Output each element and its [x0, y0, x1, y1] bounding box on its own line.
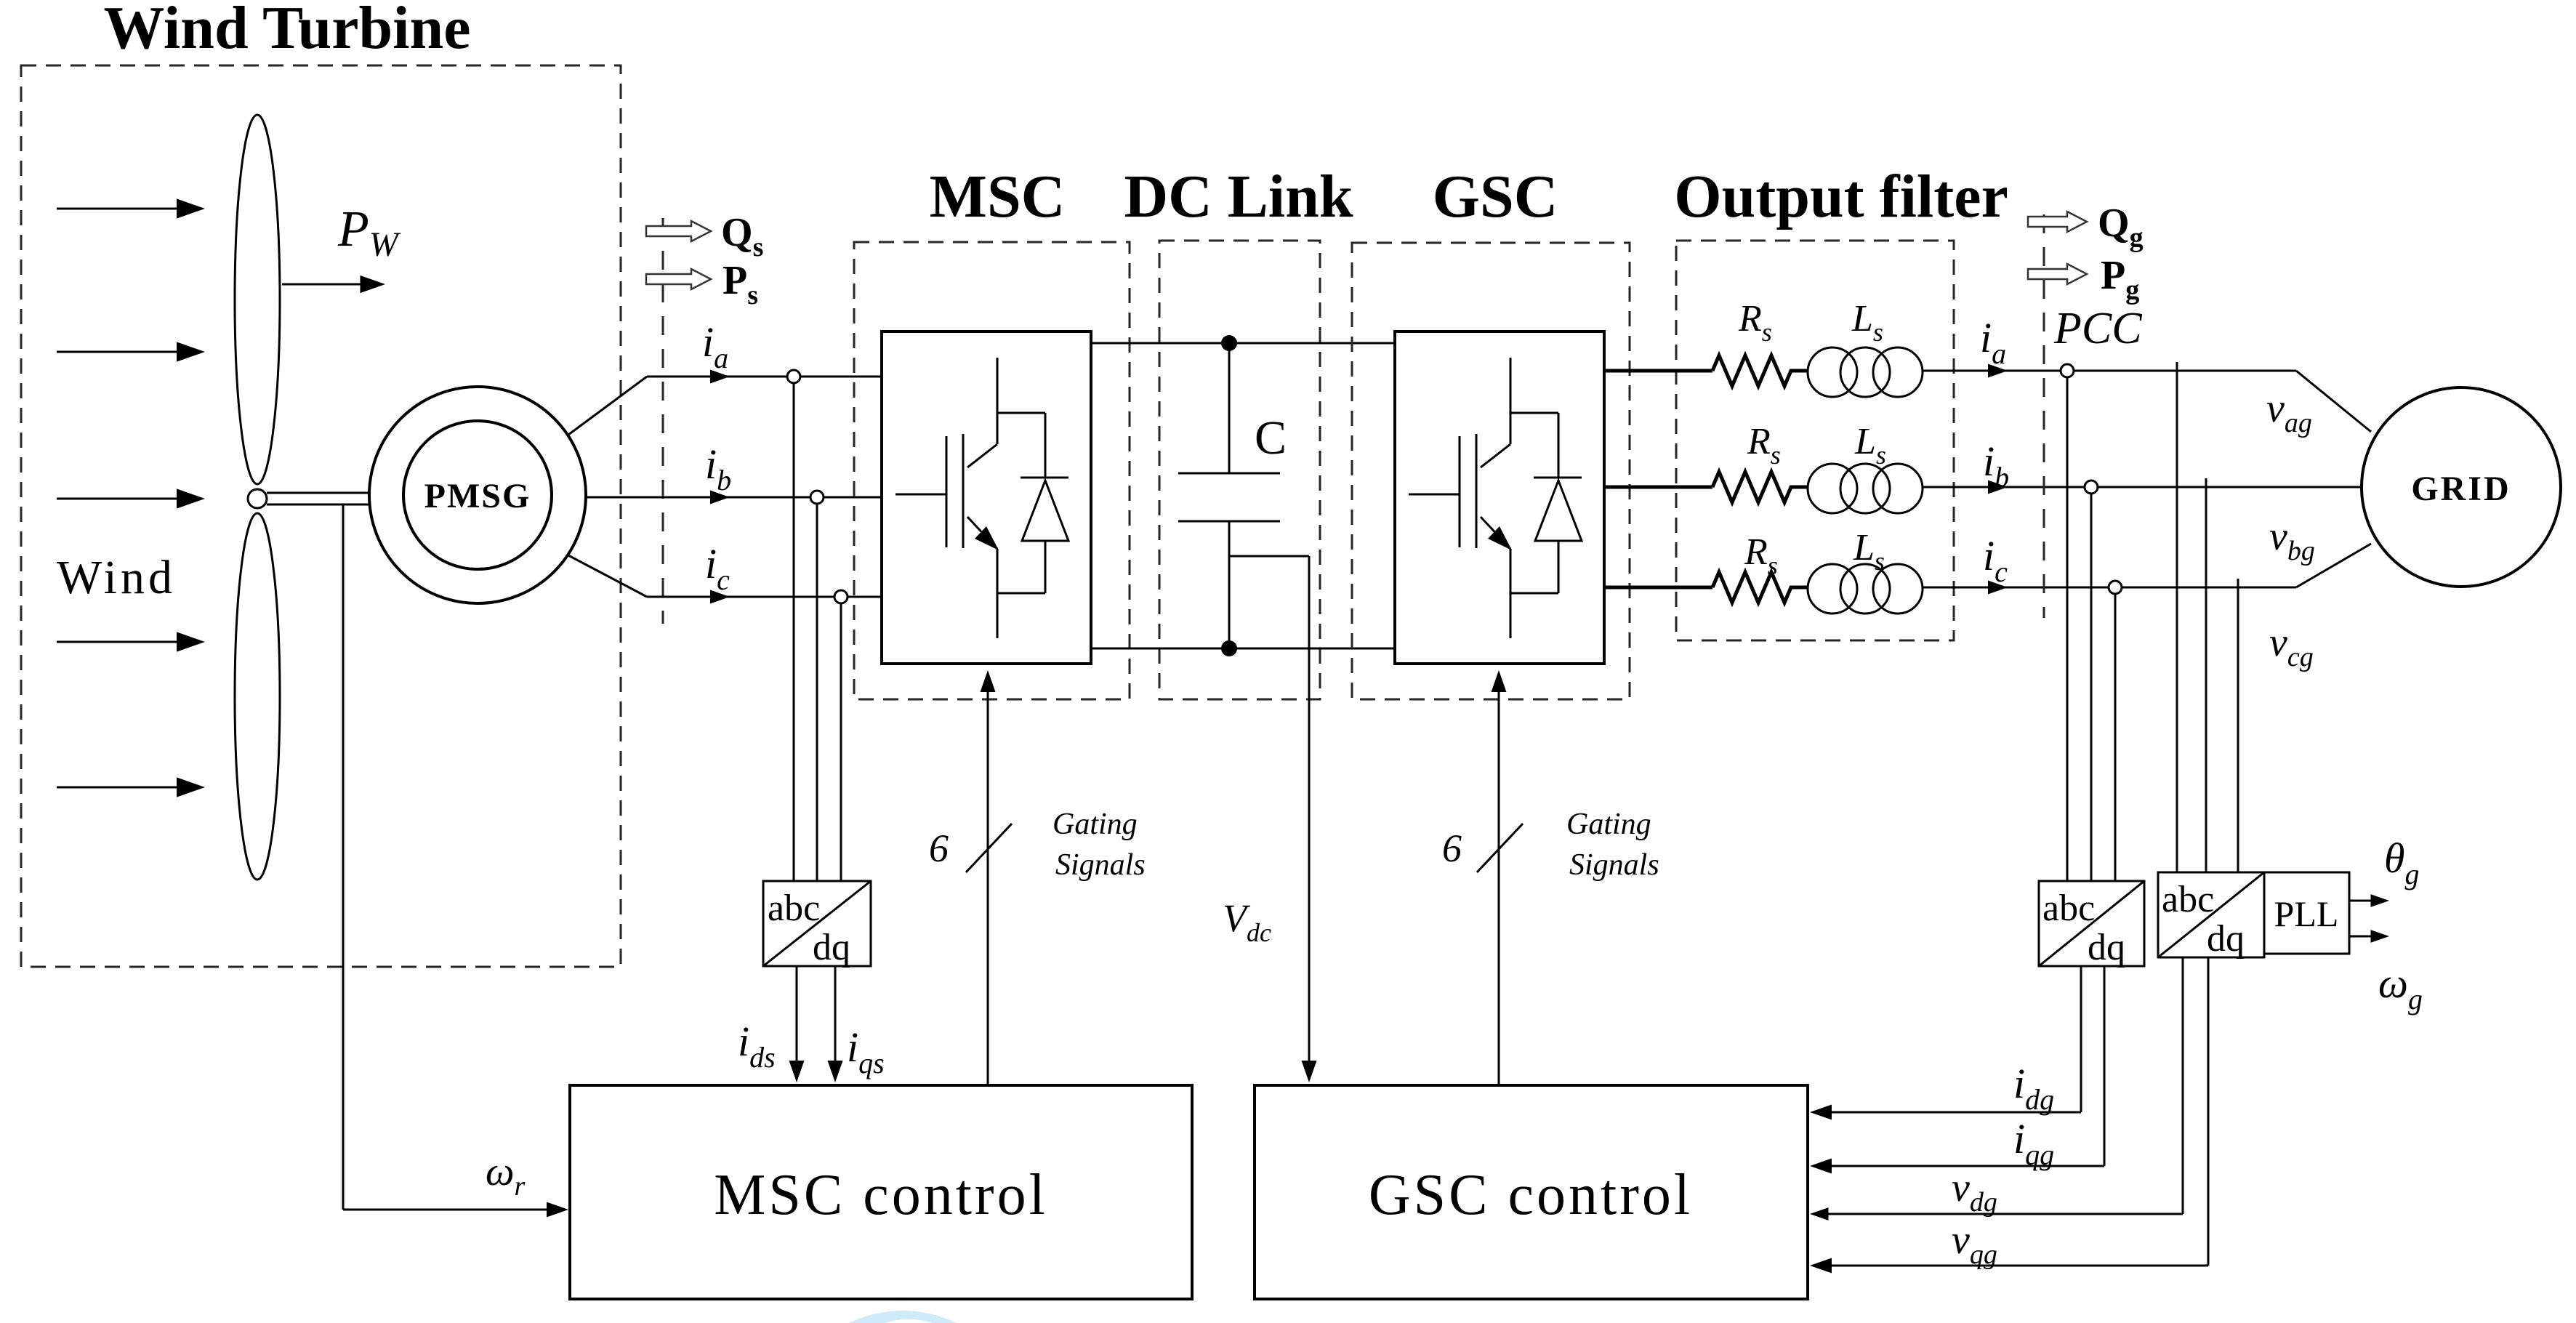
- wire grid bend a: [2296, 371, 2371, 432]
- wire Vdc vertical to GSC control: [1302, 556, 1317, 1082]
- svg-text:dq: dq: [2088, 927, 2125, 968]
- svg-text:PLL: PLL: [2274, 893, 2339, 934]
- wire omega_r sense vertical: [342, 504, 345, 1210]
- wire DC+ rail: [1091, 342, 1395, 345]
- abc/dq diagonal (currents): [2039, 881, 2144, 966]
- stator measurement dashed line: [662, 218, 664, 624]
- svg-text:MSC: MSC: [930, 163, 1066, 230]
- PLL block: [2264, 872, 2349, 954]
- svg-text:C: C: [1255, 411, 1287, 465]
- resistor Rs (a): [1712, 355, 1808, 386]
- svg-text:Signals: Signals: [1569, 848, 1659, 882]
- svg-text:abc: abc: [2162, 879, 2214, 920]
- wire iqg horizontal to GSC control: [1810, 1159, 2104, 1174]
- svg-text:GSC control: GSC control: [1369, 1163, 1693, 1227]
- arrow ic (grid): [1988, 581, 2008, 595]
- wire GSC out a: [1604, 369, 1712, 373]
- svg-text:GSC: GSC: [1433, 163, 1558, 230]
- node phase a: [787, 370, 800, 383]
- capacitor C bottom lead: [1228, 521, 1231, 648]
- inductor Ls (b): [1808, 464, 1923, 513]
- wind arrow 4: [57, 632, 205, 651]
- svg-text:Wind Turbine: Wind Turbine: [103, 0, 470, 62]
- junction DC+: [1221, 335, 1237, 351]
- generator PMSG inner: [403, 421, 552, 569]
- wire vdg vertical: [2182, 957, 2184, 1214]
- block arrow Pg: [2028, 264, 2087, 284]
- gating line GSC (6 signals): [1492, 670, 1507, 1084]
- wire GSC out b: [1604, 486, 1712, 489]
- PLL output theta_g arrow: [2349, 894, 2389, 907]
- svg-text:abc: abc: [768, 888, 820, 929]
- wire drop vb meas: [2205, 478, 2207, 872]
- DC Link enclosure (dashed): [1159, 241, 1320, 699]
- slash 6-bus mark MSC: [966, 824, 1012, 872]
- wire GSC out c: [1604, 586, 1712, 590]
- wire filter out a: [1923, 370, 2296, 372]
- wire phase a horizontal: [647, 376, 882, 378]
- capacitor C bottom plate: [1178, 520, 1280, 523]
- wire vqg vertical: [2207, 957, 2210, 1266]
- wind arrow 2: [57, 342, 205, 361]
- gating line MSC (6 signals): [981, 670, 996, 1084]
- wire drop b to abc/dq: [816, 504, 818, 881]
- MSC enclosure (dashed): [854, 242, 1130, 699]
- PLL output omega_g arrow: [2349, 930, 2389, 943]
- IGBT with diode (MSC): [895, 358, 1068, 638]
- arrow phase c: [710, 590, 730, 604]
- svg-text:PMSG: PMSG: [424, 477, 531, 515]
- wire ids arrow: [789, 966, 805, 1082]
- IGBT with diode (GSC): [1409, 358, 1582, 638]
- wire drop a to abc/dq: [793, 383, 795, 881]
- wire omega_r to MSC control: [343, 1202, 568, 1218]
- abc/dq diagonal: [763, 881, 871, 966]
- abc/dq diagonal (voltages): [2158, 872, 2264, 957]
- wind turbine enclosure (dashed): [21, 65, 621, 967]
- svg-text:Gating: Gating: [1052, 808, 1138, 841]
- block arrow Ps: [646, 269, 711, 289]
- generator PMSG outer: [369, 387, 586, 603]
- converter abc/dq block (grid currents): [2039, 881, 2144, 966]
- svg-text:Wind: Wind: [57, 551, 176, 604]
- wire phase c horizontal: [647, 596, 882, 598]
- arrow ib (grid): [1988, 480, 2008, 494]
- wind arrow 1: [57, 198, 205, 218]
- inductor Ls (a): [1808, 347, 1923, 397]
- svg-text:MSC control: MSC control: [714, 1163, 1048, 1227]
- wire Vdc tap horizontal: [1229, 555, 1309, 558]
- junction DC-: [1221, 640, 1237, 656]
- capacitor C top plate: [1178, 472, 1280, 475]
- shaft (double line): [267, 493, 371, 504]
- watermark ring bottom: [779, 1311, 1026, 1323]
- wire iqs arrow: [828, 966, 843, 1082]
- wire idg horizontal to GSC control: [1810, 1105, 2081, 1120]
- resistor Rs (c): [1712, 572, 1808, 603]
- node PCC b: [2085, 480, 2098, 494]
- svg-text:abc: abc: [2042, 888, 2095, 929]
- converter GSC box: [1395, 331, 1604, 664]
- wire filter out b: [1923, 486, 2362, 488]
- block arrow Qs: [646, 221, 711, 241]
- node phase b: [810, 491, 824, 504]
- wire vdg horizontal to GSC control: [1810, 1207, 2183, 1221]
- svg-text:6: 6: [929, 827, 949, 870]
- wire phase b horizontal: [586, 496, 882, 499]
- wire phase a diagonal from PMSG: [568, 377, 647, 435]
- wire filter out c: [1923, 587, 2296, 589]
- node PCC a: [2061, 364, 2074, 377]
- svg-text:Gating: Gating: [1566, 808, 1651, 841]
- converter MSC box: [882, 331, 1091, 664]
- arrow phase a: [710, 370, 730, 384]
- wind arrow 3: [57, 488, 205, 508]
- wire phase c diagonal from PMSG: [568, 555, 647, 597]
- GRID circle: [2362, 387, 2561, 587]
- node phase c: [834, 590, 848, 603]
- resistor Rs (b): [1712, 472, 1808, 502]
- inductor Ls (c): [1808, 564, 1923, 614]
- GSC enclosure (dashed): [1352, 243, 1630, 699]
- arrow ia (grid): [1988, 364, 2008, 378]
- wind arrow 5: [57, 777, 205, 797]
- slash 6-bus mark GSC: [1477, 824, 1523, 872]
- svg-text:PCC: PCC: [2053, 304, 2142, 353]
- capacitor C top lead: [1228, 343, 1231, 473]
- converter abc/dq block (grid voltages): [2158, 872, 2264, 957]
- block arrow Qg: [2028, 212, 2087, 232]
- turbine hub: [248, 489, 267, 508]
- svg-text:Output filter: Output filter: [1674, 163, 2008, 230]
- converter abc/dq block (machine): [763, 881, 871, 966]
- wire idg vertical: [2080, 966, 2082, 1112]
- turbine blade lower: [235, 513, 280, 880]
- wire grid bend c: [2296, 544, 2371, 587]
- wire drop ib meas: [2090, 494, 2093, 881]
- PCC measurement dashed line: [2043, 214, 2045, 618]
- GSC control box: [1255, 1085, 1808, 1299]
- Pw arrow: [282, 276, 385, 293]
- svg-text:DC Link: DC Link: [1124, 163, 1353, 230]
- wire iqg vertical: [2104, 966, 2106, 1166]
- svg-text:Signals: Signals: [1055, 848, 1146, 882]
- node PCC c: [2109, 581, 2122, 594]
- wire drop ic meas: [2114, 594, 2117, 881]
- svg-text:GRID: GRID: [2411, 470, 2511, 508]
- MSC control box: [570, 1085, 1192, 1299]
- arrow phase b: [710, 491, 730, 504]
- wire drop vc meas: [2237, 579, 2239, 872]
- wire drop ia meas: [2066, 377, 2069, 881]
- wire drop c to abc/dq: [840, 603, 842, 881]
- turbine blade upper: [235, 115, 280, 484]
- Output filter enclosure (dashed): [1676, 241, 1954, 640]
- wire DC- rail: [1091, 648, 1395, 650]
- wire drop va meas: [2176, 362, 2178, 872]
- svg-text:6: 6: [1442, 827, 1462, 870]
- svg-text:dq: dq: [813, 927, 850, 968]
- svg-text:dq: dq: [2207, 918, 2245, 960]
- wire vqg horizontal to GSC control: [1810, 1258, 2208, 1274]
